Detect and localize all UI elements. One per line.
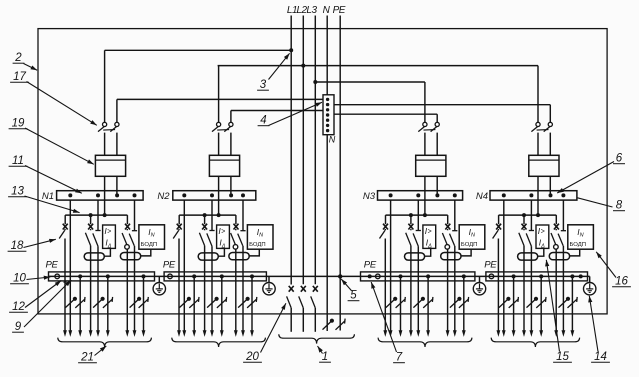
- wire L1 vertical: [290, 16, 292, 285]
- module N3 group1 neutral wire down: [390, 200, 392, 331]
- svg-text:N1: N1: [42, 191, 54, 202]
- module N1 group3 breaker (item 15): [126, 215, 128, 224]
- svg-text:I>: I>: [538, 226, 545, 236]
- svg-text:10: 10: [13, 273, 26, 285]
- ground symbol module N2: [268, 276, 270, 282]
- svg-text:12: 12: [12, 301, 25, 313]
- svg-text:19: 19: [12, 118, 25, 130]
- module N1 fuse unit (item 19): [95, 155, 125, 176]
- module N2 group2 breaker: [204, 215, 206, 224]
- module N2 group2 plug connector: [207, 299, 217, 308]
- svg-text:PE: PE: [484, 260, 497, 271]
- module N4 group1 phase wire down: [497, 239, 499, 332]
- module N1 group3 neutral contact: [134, 200, 136, 231]
- module N3 group2 neutral wire down: [417, 246, 419, 331]
- module N4 group1 breaker (item 18): [498, 215, 500, 224]
- module N4 group3 BODP link wire: [570, 249, 580, 256]
- svg-text:БОДП: БОДП: [249, 242, 265, 248]
- PE junction with incoming PE (item 5): [338, 274, 342, 278]
- module N1 group2 protection link wire: [104, 248, 110, 256]
- callout 16 leader: [596, 252, 616, 278]
- module N1 phase distribution wire (item 13): [65, 214, 127, 216]
- module N4 neutral busbar (item 11): [490, 191, 577, 200]
- callout 5 leader: [341, 279, 352, 291]
- wire L3 vertical: [314, 16, 316, 285]
- module N4 fuse unit (item 19): [529, 155, 559, 176]
- svg-text:21: 21: [80, 352, 94, 364]
- module N4 PE busbar (item 10): [486, 272, 588, 281]
- svg-text:8: 8: [616, 200, 623, 212]
- svg-text:N2: N2: [157, 191, 170, 202]
- ground symbol module N4 (item 14): [589, 276, 591, 282]
- module N3 outgoing line arrows: [383, 330, 387, 337]
- module N1 phase wire from fuse to distribution: [104, 176, 106, 215]
- module N1 group1 neutral wire down: [69, 200, 71, 331]
- svg-text:3: 3: [260, 79, 267, 91]
- module N3 PE connection dots: [399, 274, 403, 278]
- module N2 group2 current transformer: [198, 253, 218, 260]
- module N4 group2 neutral wire down: [530, 246, 532, 331]
- module N1 group2 current transformer: [84, 253, 104, 260]
- ground symbol module N1: [158, 276, 160, 282]
- module N2 PE busbar (item 10): [164, 272, 266, 281]
- svg-text:PE: PE: [163, 260, 176, 271]
- module N2 group2 neutral contact: [211, 200, 213, 230]
- module N4 group3 neutral wire down: [562, 246, 564, 332]
- module N3 group1 phase wire down: [384, 239, 386, 332]
- module N3 PE wires down: [400, 276, 402, 331]
- brace module N2 outgoing lines: [172, 338, 266, 347]
- module N1 group2 protection unit I> Id: [103, 225, 116, 248]
- module N4 neutral wire from fuse to busbar: [549, 176, 551, 195]
- module N2 group1 breaker (item 18): [178, 215, 180, 224]
- callout 15 leader: [546, 260, 559, 352]
- svg-text:PE: PE: [46, 260, 59, 271]
- module N2 group1 neutral wire down: [183, 200, 185, 331]
- module N4 phase wire from fuse to distribution: [537, 176, 539, 215]
- module N2 group1 plug connector: [179, 299, 189, 308]
- svg-text:20: 20: [245, 351, 259, 363]
- module N1 outgoing line arrows: [63, 330, 67, 337]
- svg-text:I>: I>: [425, 226, 432, 236]
- brace group 1 (feeder outgoing): [279, 334, 355, 343]
- callout 7 leader: [371, 282, 396, 352]
- svg-text:PE: PE: [364, 260, 377, 271]
- module N3 group3 neutral contact: [454, 200, 456, 231]
- module N2 group3 plug connector: [238, 299, 248, 308]
- svg-text:18: 18: [11, 240, 24, 252]
- module N2 neutral busbar (item 11): [173, 191, 256, 200]
- wire N to module N3: [334, 113, 437, 115]
- module N4 group2 plug connector: [527, 299, 537, 308]
- module N4 PE wires down: [513, 276, 515, 331]
- module N2 neutral wire from fuse to busbar: [230, 176, 232, 195]
- wire N vertical (top): [326, 16, 328, 95]
- module N1 neutral busbar (item 11): [57, 191, 144, 200]
- module N4 incoming switch phase drop: [537, 66, 539, 123]
- module N4 group2 phase wire down: [523, 246, 525, 332]
- module N1 group2 neutral wire down: [97, 246, 99, 331]
- module N1 group2 neutral contact: [97, 200, 99, 230]
- module N2 PE wires down: [193, 276, 195, 331]
- enclosure box (item 2): [38, 29, 607, 314]
- module N2 group3 neutral wire down: [242, 246, 244, 332]
- module N2 fuse unit (item 19): [209, 155, 239, 176]
- module N2 group3 breaker (item 15): [235, 215, 237, 224]
- svg-text:N: N: [329, 135, 336, 145]
- module N1 group3 current transformer: [120, 253, 140, 260]
- svg-text:N: N: [323, 5, 331, 16]
- module N3 fuse unit (item 19): [416, 155, 446, 176]
- callout 20 leader: [261, 303, 286, 352]
- wire PE vertical: [339, 16, 341, 331]
- module N3 group2 protection link wire: [425, 248, 431, 256]
- module N3 group2 neutral contact: [417, 200, 419, 230]
- module N3 group1 breaker (item 18): [385, 215, 387, 224]
- module N1 group1 breaker (item 18): [64, 215, 66, 224]
- module N4 group3 plug connector: [559, 299, 569, 308]
- module N4 PE connection dots: [512, 274, 516, 278]
- svg-text:9: 9: [15, 321, 22, 333]
- wire L2 vertical: [302, 16, 304, 285]
- module N3 group3 current transformer: [441, 253, 461, 260]
- module N3 group2 protection unit I> Id: [423, 225, 436, 248]
- module N3 neutral busbar (item 11): [378, 191, 463, 200]
- module N3 two-pole switch (item 17): [423, 122, 427, 126]
- outgoing feeder plug connector N: [323, 320, 333, 329]
- module N3 group2 current transformer: [405, 253, 425, 260]
- module N3 group1 plug connector: [386, 299, 396, 308]
- module N2 group1 phase wire down: [178, 239, 180, 332]
- svg-text:1: 1: [322, 351, 328, 363]
- module N1 PE terminal: [55, 274, 60, 279]
- callout 17 leader: [27, 82, 97, 126]
- svg-text:14: 14: [594, 351, 607, 363]
- outgoing feeder breaker L2: [301, 286, 306, 292]
- brace module N4 outgoing lines: [491, 338, 579, 347]
- module N4 group2 current transformer: [518, 253, 538, 260]
- module N2 two-pole switch (item 17): [217, 122, 221, 126]
- module N4 group2 protection unit I> Id: [536, 225, 549, 248]
- module N2 group2 neutral wire down: [211, 246, 213, 331]
- wire N to module N1: [117, 98, 323, 100]
- outgoing feeder plug connector PE: [336, 321, 346, 330]
- module N1 group3 arc protection unit BODP (item 16): [139, 225, 165, 249]
- module N4 group3 breaker (item 15): [555, 215, 557, 224]
- module N3 group2 breaker: [410, 215, 412, 224]
- svg-text:БОДП: БОДП: [461, 242, 477, 248]
- module N4 outgoing line arrows: [497, 330, 501, 337]
- module N3 phase wire from fuse to distribution: [424, 176, 426, 215]
- callout 11 leader: [25, 166, 82, 194]
- module N1 incoming switch phase drop: [104, 50, 106, 122]
- module N3 group2 plug connector: [413, 299, 423, 308]
- dashed link near PE terminal (item 12): [64, 281, 67, 284]
- wire N to module N2: [231, 110, 323, 112]
- module N2 group3 current transformer: [229, 253, 249, 260]
- svg-text:N4: N4: [476, 191, 488, 202]
- module N1 group3 phase wire down: [126, 249, 128, 331]
- brace group 21 (module N1 outgoing lines): [58, 338, 152, 347]
- module N3 incoming switch neutral drop: [436, 114, 438, 122]
- module N1 group1 plug connector: [65, 299, 75, 308]
- module N1 group2 breaker: [90, 215, 92, 224]
- callout 6 leader: [557, 162, 614, 194]
- svg-text:17: 17: [13, 71, 26, 83]
- callout 14 leader: [589, 296, 598, 352]
- outgoing feeder breaker L3: [313, 286, 318, 292]
- svg-text:I>: I>: [218, 226, 225, 236]
- wire L1 tap to module N1 (item 3 junction): [105, 49, 292, 51]
- module N4 group2 breaker: [523, 215, 525, 224]
- module N3 group3 arc protection unit BODP (item 16): [459, 225, 485, 249]
- svg-text:L1: L1: [287, 5, 297, 16]
- module N1 PE wires down: [79, 276, 81, 331]
- callout 1 leader: [318, 346, 323, 354]
- module N1 group3 neutral wire down: [134, 246, 136, 332]
- module N2 group3 arc protection unit BODP (item 16): [247, 225, 273, 249]
- module N1 group3 release coil: [125, 245, 130, 250]
- svg-text:4: 4: [260, 115, 266, 127]
- module N2 group3 release coil: [233, 245, 238, 250]
- wire N vertical (below terminal block): [326, 135, 328, 331]
- module N4 group2 protection link wire: [538, 248, 544, 256]
- module N1 neutral wire from fuse to busbar: [116, 176, 118, 195]
- callout 3 leader: [269, 53, 290, 79]
- module N4 group3 arc protection unit BODP (item 16): [568, 225, 594, 249]
- module N4 group3 release coil: [554, 245, 559, 250]
- module N3 group3 release coil: [445, 245, 450, 250]
- callout 12 leader: [25, 281, 61, 308]
- module N1 PE busbar (item 10): [49, 272, 155, 281]
- module N4 PE terminal: [489, 274, 494, 279]
- module N1 group3 plug connector: [130, 299, 140, 308]
- module N1 two-pole switch (item 17): [103, 122, 107, 126]
- module N1 group2 phase wire down: [90, 246, 92, 332]
- module N3 group3 BODP link wire: [461, 249, 471, 256]
- module N2 phase wire from fuse to distribution: [218, 176, 220, 215]
- module N3 group2 phase wire down: [410, 246, 412, 332]
- module N3 neutral wire from fuse to busbar: [436, 176, 438, 195]
- module N2 group3 BODP link wire: [249, 249, 259, 256]
- svg-text:11: 11: [12, 155, 24, 167]
- module N1 PE connection dots: [78, 274, 82, 278]
- module N3 busbar connection dots: [389, 193, 393, 197]
- svg-text:2: 2: [14, 52, 22, 64]
- callout 13 leader: [25, 196, 80, 213]
- module N2 group3 neutral contact: [242, 200, 244, 231]
- callout 8 leader: [578, 198, 613, 207]
- module N4 group1 neutral wire down: [503, 200, 505, 331]
- svg-text:I>: I>: [104, 226, 111, 236]
- module N4 group2 neutral contact: [530, 200, 532, 230]
- callout 19 leader: [25, 128, 94, 164]
- svg-text:N3: N3: [363, 191, 376, 202]
- module N4 group3 neutral contact: [562, 200, 564, 231]
- svg-text:15: 15: [556, 351, 569, 363]
- svg-text:7: 7: [396, 352, 403, 364]
- module N2 group2 phase wire down: [204, 246, 206, 332]
- module N3 group3 plug connector: [450, 299, 460, 308]
- module N2 phase distribution wire (item 13): [179, 214, 236, 216]
- module N3 PE busbar (item 10): [361, 272, 475, 281]
- module N2 incoming switch phase drop: [218, 66, 220, 123]
- PE distribution wire: [49, 275, 590, 277]
- wire L3 tap to module N3: [315, 81, 425, 83]
- module N2 group2 protection unit I> Id: [217, 225, 230, 248]
- module N1 group1 phase wire down: [64, 239, 66, 332]
- module N3 PE terminal: [376, 274, 381, 279]
- ground symbol module N3: [479, 276, 481, 282]
- svg-text:БОДП: БОДП: [570, 242, 586, 248]
- module N1 busbar connection dots: [68, 193, 72, 197]
- module N1 incoming switch neutral drop: [116, 99, 118, 122]
- callout 2 leader: [24, 64, 38, 71]
- callout 10 leader: [27, 277, 51, 280]
- callout 9 leader: [24, 280, 71, 327]
- outgoing feeder breaker L1 (item 20): [289, 286, 294, 292]
- module N3 group3 phase wire down: [447, 249, 449, 331]
- module N2 PE connection dots: [192, 274, 196, 278]
- wire L2 tap to modules N2 and N4: [218, 65, 538, 67]
- module N4 incoming switch neutral drop: [549, 105, 551, 123]
- module N4 group3 phase wire down: [555, 249, 557, 331]
- module N4 two-pole switch (item 17): [536, 122, 540, 126]
- module N2 PE terminal: [168, 274, 173, 279]
- module N3 phase distribution wire (item 13): [386, 214, 448, 216]
- module N2 incoming switch neutral drop: [230, 111, 232, 123]
- module N2 busbar connection dots: [182, 193, 186, 197]
- brace module N3 outgoing lines: [378, 338, 472, 347]
- svg-text:13: 13: [11, 186, 24, 198]
- callout 21 leader: [95, 346, 107, 356]
- module N2 group2 protection link wire: [218, 248, 224, 256]
- svg-text:16: 16: [615, 276, 628, 288]
- module N3 group3 neutral wire down: [454, 246, 456, 332]
- module N4 group3 current transformer: [549, 253, 569, 260]
- module N4 phase distribution wire (item 13): [499, 214, 557, 216]
- terminal block N (item 4): [323, 95, 334, 135]
- module N1 group3 BODP link wire: [141, 249, 151, 256]
- callout 4 leader: [269, 102, 323, 125]
- module N4 busbar connection dots: [502, 193, 506, 197]
- svg-text:БОДП: БОДП: [141, 242, 157, 248]
- module N2 outgoing line arrows: [177, 330, 181, 337]
- module N3 group3 breaker (item 15): [447, 215, 449, 224]
- module N2 group3 phase wire down: [235, 249, 237, 331]
- svg-text:PE: PE: [333, 5, 346, 16]
- wire N to module N4: [334, 104, 550, 106]
- module N3 incoming switch phase drop: [424, 82, 426, 122]
- svg-text:6: 6: [616, 153, 623, 165]
- module N4 group1 plug connector: [499, 299, 509, 308]
- callout 18 leader: [24, 239, 56, 247]
- svg-text:L3: L3: [306, 5, 317, 16]
- module N1 group2 plug connector: [93, 299, 103, 308]
